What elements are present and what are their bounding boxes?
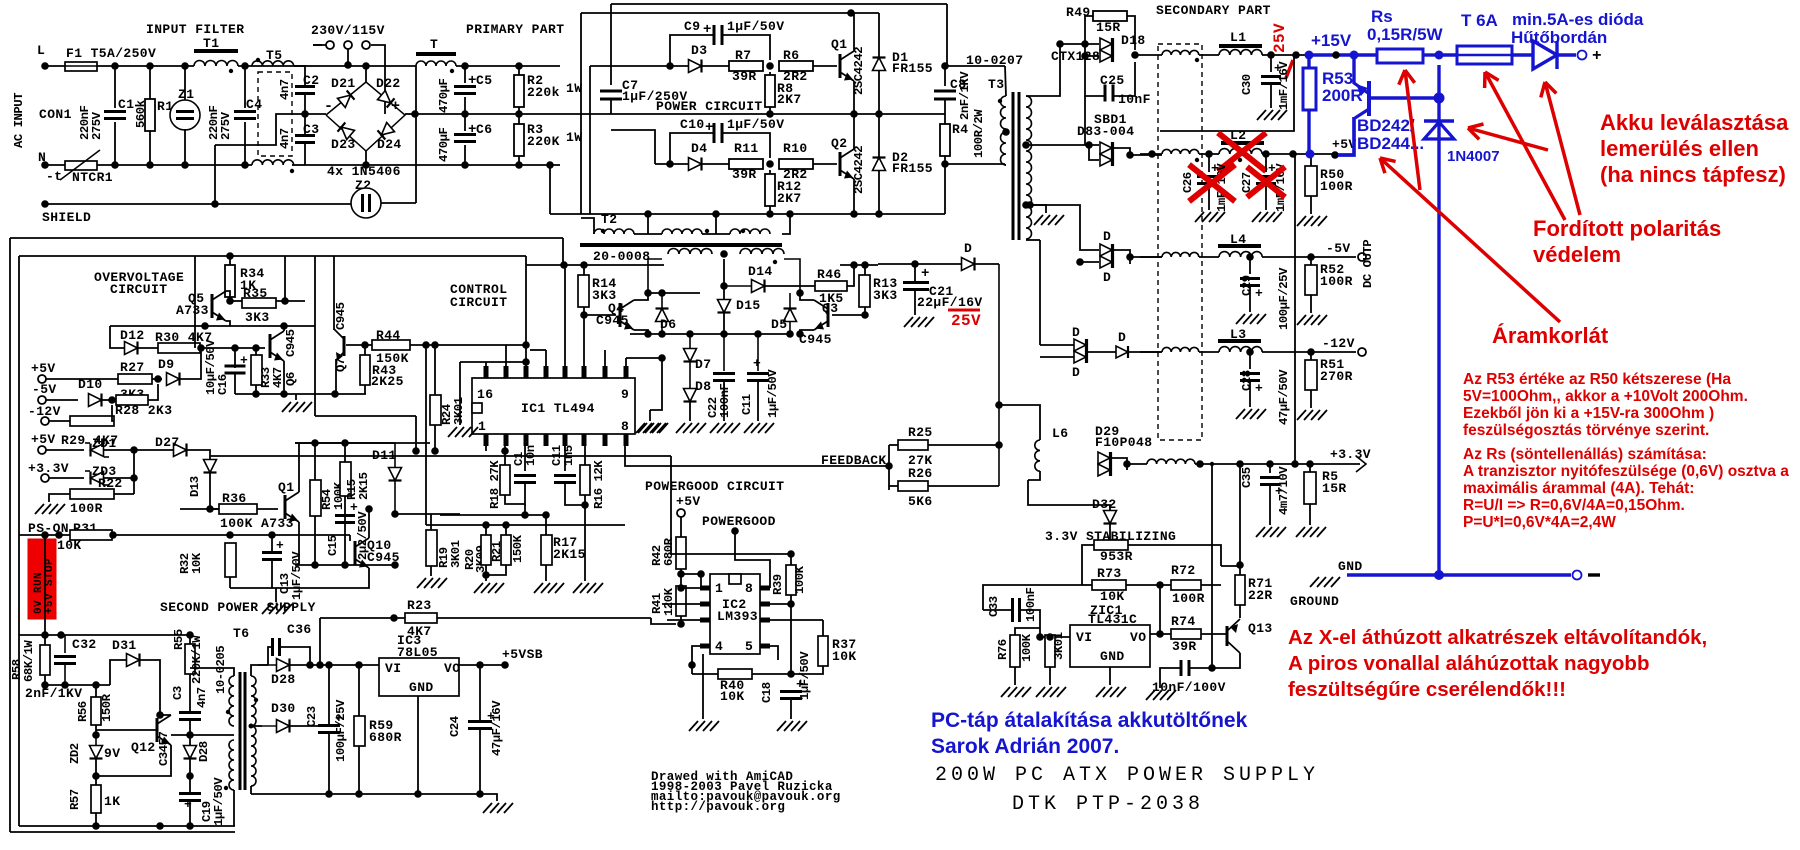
wire pin to R39 — [770, 603, 791, 605]
svg-text:R=U/I => R=0,6V/4A=0,15Ohm.: R=U/I => R=0,6V/4A=0,15Ohm. — [1463, 497, 1685, 514]
wire C3 bottom — [189, 720, 191, 745]
capacitor C3 — [295, 134, 315, 137]
resistor R7 — [729, 61, 763, 71]
ground symbol GND — [1310, 577, 1319, 587]
transformer T3 primary winding — [1001, 96, 1006, 129]
diode D9 — [167, 373, 180, 386]
fuse T 6A (blue) — [1457, 46, 1512, 64]
terminal -12V c — [41, 417, 49, 425]
transistor Q12 C3457 — [156, 718, 159, 742]
dashed box output chokes — [1158, 44, 1202, 440]
wire R12 bottom — [769, 206, 771, 214]
wire R35 up — [284, 256, 286, 301]
wire Q10 collector — [368, 509, 370, 538]
svg-text:FR155: FR155 — [892, 161, 933, 176]
wire C10 left — [670, 133, 714, 164]
diode D -12V (double) — [1074, 339, 1086, 351]
svg-text:T6: T6 — [233, 626, 249, 641]
svg-text:D28: D28 — [197, 741, 211, 762]
T6 phase dot b — [224, 786, 228, 790]
wire rail y832 — [10, 831, 235, 833]
junction shield — [211, 200, 219, 208]
svg-text:4n7: 4n7 — [278, 79, 292, 100]
wire C36 out — [280, 647, 310, 665]
svg-text:+: + — [276, 538, 284, 553]
resistor R32 — [225, 543, 236, 577]
junction x564 — [560, 261, 568, 269]
capacitor C7 — [600, 90, 622, 93]
wire to D-12V 2 — [1040, 356, 1074, 358]
wire down to y515 — [524, 504, 526, 515]
diode D22 — [378, 91, 391, 103]
svg-text:47µF/16V: 47µF/16V — [490, 700, 504, 756]
svg-text:FR155: FR155 — [892, 61, 933, 76]
capacitor 10nF/100V — [1180, 660, 1183, 676]
wire R29 out — [112, 405, 114, 421]
node C2 C3 mid — [301, 110, 309, 118]
wire C26 bottom — [1208, 184, 1210, 210]
wire C19 top — [189, 776, 191, 793]
wire R12 top — [769, 170, 771, 174]
svg-text:DTK PTP-2038: DTK PTP-2038 — [1012, 793, 1204, 816]
svg-text:-: - — [324, 98, 333, 115]
junction 3K01 — [1046, 633, 1054, 641]
wire R58 bottom — [44, 675, 46, 685]
wire pin1 — [681, 587, 700, 589]
wire T to C5 R2 — [456, 65, 560, 67]
wire R76 bottom — [1014, 667, 1016, 685]
svg-text:+: + — [1255, 286, 1263, 301]
wire R22 out — [114, 493, 134, 495]
svg-text:4: 4 — [715, 639, 723, 654]
wire R71 bottom — [1239, 605, 1241, 618]
wire R4 to rail — [944, 164, 946, 214]
junction base wire — [1332, 51, 1340, 59]
ground IC1 16 — [448, 427, 457, 437]
wire T3 top tap — [1026, 44, 1060, 96]
wire long rail y256 — [19, 255, 526, 257]
svg-text:C11: C11 — [740, 394, 754, 415]
wire C8 link — [944, 66, 946, 86]
wire R15 bottom — [344, 496, 346, 565]
svg-text:9: 9 — [621, 387, 629, 402]
wire to Q4 base — [584, 314, 616, 316]
blue node GND — [1434, 570, 1444, 580]
svg-text:Q1: Q1 — [278, 480, 294, 495]
svg-text:1N4007: 1N4007 — [1447, 148, 1500, 165]
transformer T3 primary winding 2 — [1001, 132, 1006, 165]
resistor R76 — [1010, 635, 1020, 667]
wire C33 in — [983, 609, 1012, 611]
svg-text:C3: C3 — [171, 686, 185, 700]
junction R11 R10 — [766, 160, 774, 168]
junction 3v3 a — [1196, 460, 1204, 468]
svg-text:T2: T2 — [601, 212, 617, 227]
wire bus y362 — [460, 361, 526, 363]
svg-text:Z1: Z1 — [178, 87, 194, 102]
wire rail to C24 — [460, 793, 480, 795]
wire x315 vertical — [314, 256, 316, 416]
junction R41 bottom — [677, 620, 685, 628]
wire C16 bottom — [234, 374, 236, 394]
resistor R12 — [765, 174, 775, 206]
wire VI in — [1040, 636, 1070, 638]
resistor R35 — [242, 298, 276, 308]
wire collector rail — [648, 292, 700, 294]
svg-text:100R: 100R — [1320, 274, 1353, 289]
wire pin9 right — [626, 358, 662, 366]
svg-text:R11: R11 — [734, 141, 759, 156]
junction C35 — [1266, 460, 1274, 468]
wire pin5 — [770, 646, 778, 660]
transformer T1 core — [194, 49, 238, 53]
wire cap right — [1189, 653, 1240, 668]
wire C11b top — [564, 446, 566, 471]
IC U1 TL494 box — [472, 378, 635, 434]
junction x1295 — [1289, 150, 1297, 158]
bridge rectifier D21-D24 — [326, 82, 405, 151]
wire C33 out — [1020, 610, 1040, 637]
resistor R44 — [372, 340, 410, 350]
junction R3 bottom — [515, 161, 523, 169]
junction switch mid — [344, 61, 352, 69]
wire to R44 — [346, 344, 372, 346]
node +5VSB — [501, 661, 509, 669]
svg-text:Ezekből jön ki a +15V-ra 300Oh: Ezekből jön ki a +15V-ra 300Ohm ) — [1463, 405, 1714, 422]
wire +5V down — [680, 517, 682, 537]
wire R49 right — [1127, 16, 1135, 50]
junction D-5V out — [1126, 253, 1134, 261]
wire switch to rail — [347, 49, 349, 65]
ground 10nF — [1146, 690, 1155, 700]
T3 phase dot — [998, 99, 1002, 103]
blue wire +5V to BD242 emitter — [1338, 117, 1354, 155]
resistor R16 body — [580, 465, 590, 495]
transformer T6 left winding bottom — [229, 740, 234, 790]
svg-text:C945: C945 — [596, 313, 629, 328]
svg-text:4K7: 4K7 — [407, 624, 432, 639]
wire D9 out — [180, 348, 201, 379]
T5 dashed box — [258, 72, 292, 156]
wire to gnd2 — [275, 588, 277, 602]
svg-text:Q13: Q13 — [1248, 621, 1273, 636]
wire T6 p2 — [233, 790, 235, 826]
svg-text:5: 5 — [745, 639, 753, 654]
wire Z1 bottom — [184, 129, 186, 165]
wire down pin1 — [700, 574, 702, 588]
svg-text:4n7: 4n7 — [278, 128, 292, 149]
wire T6 sec bottom — [250, 786, 252, 794]
junction SBD1 out — [1126, 151, 1134, 159]
wire 953R right — [1128, 545, 1221, 566]
wire drive link — [611, 130, 655, 164]
ground extra — [638, 423, 647, 433]
svg-text:220K: 220K — [527, 134, 560, 149]
wire C28 bottom — [1249, 381, 1251, 407]
wire left frame x19 — [18, 256, 20, 826]
resistor R50 — [1305, 166, 1317, 196]
junction x1212 — [1208, 664, 1216, 672]
IC U3 78L05 box — [379, 658, 459, 696]
wire left loop down — [194, 256, 196, 348]
wire R25 out — [928, 444, 999, 446]
wire ZD junction — [133, 450, 135, 494]
wire rail y515 — [440, 514, 546, 516]
svg-text:T1: T1 — [203, 36, 219, 51]
wire R5 top — [1309, 464, 1311, 472]
svg-text:D13: D13 — [188, 476, 202, 497]
svg-text:CON1: CON1 — [39, 107, 72, 122]
ground C29 — [1236, 314, 1245, 324]
svg-text:+5VSB: +5VSB — [502, 647, 543, 662]
wire R34 top — [229, 256, 231, 266]
transistor Q1 A733 (2nd) — [284, 495, 287, 519]
wire gnd drop x460 — [459, 362, 461, 425]
wire D13 bottom — [209, 501, 211, 509]
node FEEDBACK — [885, 462, 893, 470]
resistor R73 — [1092, 580, 1126, 590]
blue node fuse in — [1435, 51, 1444, 60]
svg-text:R76: R76 — [996, 639, 1010, 660]
transformer T1 winding — [194, 61, 238, 67]
svg-text:védelem: védelem — [1533, 242, 1621, 267]
wire R3 bottom — [518, 156, 520, 165]
wire R74 to Q13 — [1201, 633, 1227, 635]
svg-text:100µF/25V: 100µF/25V — [334, 699, 348, 762]
junction C28 — [1246, 348, 1254, 356]
ground R51 — [1297, 410, 1306, 420]
junction R53 — [1292, 51, 1300, 59]
wire R37 top — [822, 620, 824, 636]
diode D28 vertical — [184, 746, 197, 759]
wire SBD1 to choke — [1130, 154, 1162, 156]
junction R8 bottom — [766, 110, 774, 118]
wire N to NTCR1 — [45, 164, 65, 166]
wire R73 in — [1082, 584, 1092, 586]
inductor L1 — [1219, 50, 1262, 55]
junction C29 — [1246, 253, 1254, 261]
svg-text:T 6A: T 6A — [1461, 11, 1498, 30]
wire feedback rail — [625, 446, 889, 466]
svg-text:2K15: 2K15 — [553, 547, 586, 562]
wire R46 up — [847, 265, 854, 286]
svg-text:+3.3V: +3.3V — [28, 461, 69, 476]
wire box bottom — [295, 564, 395, 566]
wire L to F1 — [45, 65, 65, 67]
ground T3 — [1034, 215, 1043, 225]
wire T2 gap 2 — [702, 233, 730, 235]
wire D29 join — [1111, 458, 1127, 470]
junction x526 b — [522, 358, 530, 366]
wire R55 bottom — [189, 674, 191, 712]
wire R59 bottom — [358, 746, 360, 794]
junction R44 in — [361, 341, 369, 349]
resistor R10 — [779, 159, 813, 169]
wire +5V a — [46, 378, 118, 380]
wire Q5 collector — [226, 291, 230, 301]
wire powergood out — [735, 531, 770, 588]
resistor R57 — [91, 785, 101, 813]
svg-text:C30: C30 — [1240, 74, 1254, 95]
wire R33 top — [255, 348, 257, 355]
wire R27 out — [152, 378, 162, 380]
junction R30 c — [252, 344, 260, 352]
wire C29 top — [1249, 257, 1251, 274]
transistor Q10 C945 — [354, 541, 357, 565]
terminal -5V — [1358, 253, 1366, 261]
wire pin1 down — [485, 446, 487, 451]
wire T3 sec bottom — [1026, 239, 1040, 241]
resistor R72 — [1171, 580, 1201, 590]
svg-text:150R: 150R — [100, 693, 114, 722]
svg-text:1µF/50V: 1µF/50V — [727, 117, 784, 132]
junction R12 bottom — [766, 210, 774, 218]
T3 core bar 2 — [1018, 92, 1021, 240]
diode SBD1 (double) — [1100, 142, 1112, 154]
wire R36 out — [257, 508, 278, 510]
wire Q6 collector — [283, 326, 285, 331]
wire pin10 up — [604, 350, 606, 366]
wire to L3 — [1199, 351, 1219, 353]
resistor R55 — [185, 644, 195, 674]
wire R42 bottom — [680, 569, 682, 586]
ground C22 — [710, 423, 719, 433]
svg-text:Az Rs (söntellenállás) számítá: Az Rs (söntellenállás) számítása: — [1463, 446, 1707, 463]
red arrow to transistor (Aramkorlat) — [1380, 158, 1560, 322]
ground R52 — [1297, 315, 1306, 325]
blue wire BD emitter up — [1352, 55, 1355, 84]
ground R16 C11 — [573, 583, 582, 593]
wire pin13 up — [545, 350, 547, 366]
minus dash — [1588, 573, 1600, 576]
terminal -5V b — [38, 396, 46, 404]
wire R31 out — [112, 534, 230, 536]
wire C11b R16 join — [565, 483, 585, 505]
red arrow to diode — [1545, 82, 1580, 215]
diode D21 — [338, 95, 351, 107]
wire to D27 — [134, 449, 174, 451]
wire L2 out — [1262, 153, 1334, 155]
wire vertical x426 — [425, 345, 427, 525]
wire tap to D18 — [1060, 43, 1099, 45]
terminal +3.3V e — [41, 474, 49, 482]
svg-text:C36: C36 — [287, 622, 312, 637]
svg-text:+5V: +5V — [676, 494, 701, 509]
red underline 16V — [948, 309, 980, 312]
svg-text:D: D — [1103, 270, 1111, 285]
red arrow to 1N4007 — [1468, 128, 1548, 150]
wire T left down — [415, 66, 417, 114]
resistor R42 — [676, 537, 686, 569]
T6 core bar 2 — [244, 672, 247, 790]
resistor R24 — [430, 395, 441, 425]
blue node +5V — [1306, 150, 1315, 159]
wire to R41 — [651, 618, 676, 624]
junction R39 bottom — [787, 600, 795, 608]
wire R39 top — [790, 554, 792, 565]
wire C10 right — [722, 133, 770, 158]
wire bridge right — [405, 113, 415, 115]
junction R39 top — [787, 550, 795, 558]
wire -12V c — [49, 420, 70, 422]
svg-text:Áramkorlát: Áramkorlát — [1492, 323, 1609, 348]
diode D5 — [784, 309, 797, 322]
resistor R37 — [818, 636, 828, 666]
resistor R21 body — [501, 535, 511, 565]
junction C6 bottom — [461, 161, 469, 169]
svg-text:C16: C16 — [216, 374, 230, 395]
svg-text:Sarok Adrián 2007.: Sarok Adrián 2007. — [931, 735, 1119, 758]
svg-text:R23: R23 — [407, 598, 432, 613]
wire pin3 — [667, 619, 700, 621]
svg-text:100K: 100K — [793, 565, 807, 594]
junction R4 bottom — [941, 160, 949, 168]
wire rail right y265 — [840, 264, 878, 266]
svg-text:+: + — [1255, 381, 1263, 396]
capacitor C36 — [271, 638, 274, 656]
svg-text:Akku leválasztása: Akku leválasztása — [1600, 110, 1789, 135]
svg-text:Az R53 értéke az R50 kétszeres: Az R53 értéke az R50 kétszerese (Ha — [1463, 371, 1731, 388]
wire R25 in — [889, 444, 898, 446]
wire to R71 top — [1221, 565, 1240, 567]
svg-text:+15V: +15V — [1311, 31, 1352, 50]
transformer T6 right winding — [251, 676, 256, 786]
svg-text:275V: 275V — [90, 111, 104, 140]
capacitor C21 — [903, 281, 929, 284]
junction R71 top — [1236, 561, 1244, 569]
svg-text:PC-táp átalakítása akkutöltőne: PC-táp átalakítása akkutöltőnek — [931, 709, 1248, 732]
ground IC1 right — [636, 423, 645, 433]
svg-text:D27: D27 — [155, 435, 180, 450]
capacitor C30 — [1261, 75, 1281, 78]
T2 core — [580, 243, 782, 247]
svg-text:+: + — [1592, 47, 1602, 65]
wire R4 bottom — [944, 156, 946, 164]
L3 core — [1218, 339, 1261, 343]
svg-text:R46: R46 — [817, 267, 842, 282]
wire R36 rail — [180, 508, 219, 510]
wire C21 b — [914, 290, 916, 315]
wire R52 bottom — [1310, 295, 1312, 313]
wire mid rail y114 — [560, 113, 945, 115]
capacitor C28 — [1240, 372, 1260, 375]
svg-text:R6: R6 — [783, 48, 799, 63]
diode D32 — [1104, 511, 1117, 524]
resistor R26 — [898, 481, 928, 491]
wire D11 right — [395, 513, 460, 515]
svg-text:F1 T5A/250V: F1 T5A/250V — [66, 46, 156, 61]
svg-text:SHIELD: SHIELD — [42, 210, 91, 225]
junction sense 3v3 — [1291, 460, 1299, 468]
junction D14 branch — [720, 282, 728, 290]
node shield left — [41, 200, 49, 208]
wire T6 mid tap — [171, 734, 234, 736]
diode D6 — [656, 309, 669, 322]
wire T6 sec top — [251, 665, 268, 676]
junction D29 out — [1123, 460, 1131, 468]
svg-text:25V: 25V — [1271, 23, 1289, 53]
resistor R6 — [779, 61, 813, 71]
diode D14 — [724, 285, 752, 287]
resistor R23 — [405, 613, 437, 623]
wire x1085 down — [1084, 96, 1086, 145]
wire C6 top — [464, 114, 466, 131]
capacitor C22 — [723, 334, 725, 371]
junction R2 R3 — [515, 110, 523, 118]
wire R17 top — [545, 515, 547, 535]
junction Q5 c — [226, 297, 234, 305]
zener ZD3 — [91, 472, 104, 485]
